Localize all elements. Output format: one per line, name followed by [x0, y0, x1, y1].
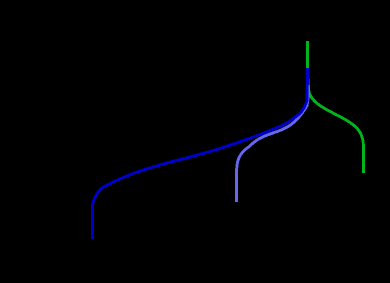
curve 2: light periwinkle blue (middle)	[237, 87, 309, 202]
curve 3: green (right branch, decreasing)	[308, 41, 364, 173]
curve 1: dark blue (left, widest span)	[93, 68, 308, 239]
